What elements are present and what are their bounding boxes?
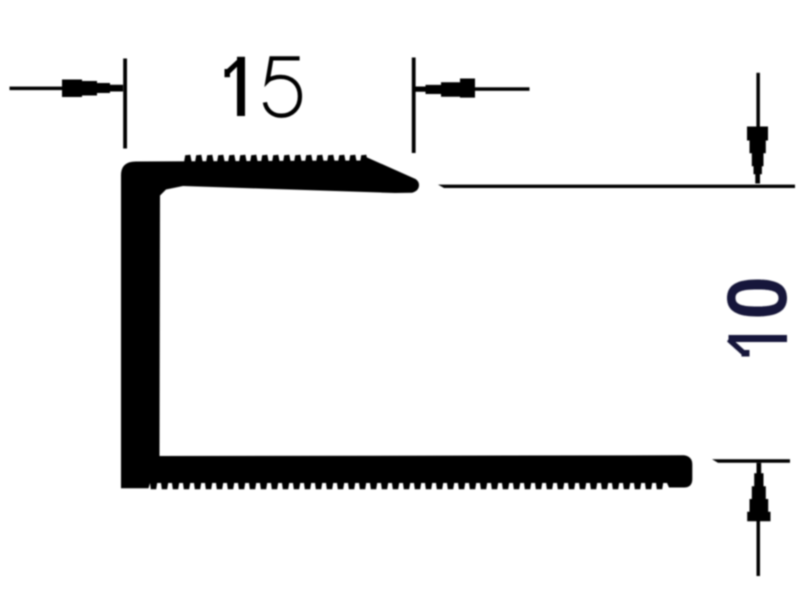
dimension text 15 : digit 5 — [265, 58, 300, 115]
dimension text 10 : digit 0 (rotated) — [727, 280, 787, 317]
arrowhead down (dim 10 top) — [747, 127, 768, 184]
reference line bottom (dim 10, underside of bottom flange) — [712, 459, 790, 463]
profile top flange serration teeth — [184, 155, 368, 163]
dimension text 15 : digit 1 — [225, 57, 246, 116]
extension line right (dim 15) — [412, 58, 416, 154]
arrow stem below (dim 10 bottom) — [757, 521, 761, 576]
dimension line right tail (dim 15) — [475, 87, 530, 91]
arrowhead up (dim 10 bottom) — [747, 463, 770, 521]
dimension line left tail (dim 15) — [10, 87, 63, 91]
profile bottom flange serration teeth — [150, 483, 663, 489]
dimension text 10 : digit 1 (rotated) — [727, 335, 787, 357]
extension line left (dim 15) — [123, 59, 127, 149]
arrowhead right (points left, dim 15) — [415, 79, 475, 98]
profile body (J-section aluminium edge profile) — [121, 157, 692, 488]
reference line top (dim 10, underside of top flange) — [438, 185, 795, 188]
arrow stem above (dim 10 top) — [756, 73, 760, 128]
arrowhead left (points right, dim 15) — [62, 80, 123, 98]
